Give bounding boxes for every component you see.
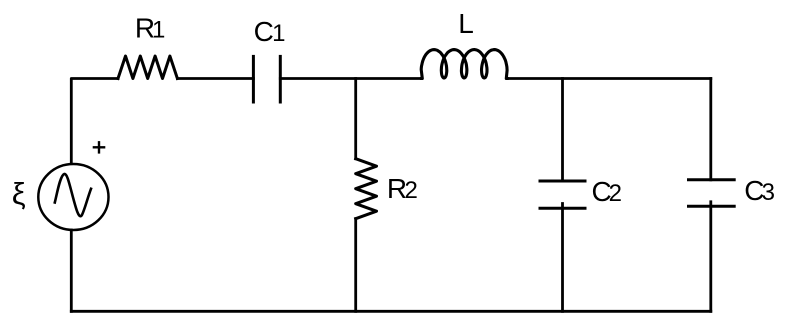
- svg-text:ξ: ξ: [12, 176, 26, 211]
- capacitor C3: [689, 180, 735, 207]
- wire: right vertical from top-right corner to C3: [709, 79, 712, 180]
- wire: C1 to inductor L through R2 junction node: [280, 77, 421, 80]
- resistor R2: [356, 159, 377, 219]
- wire: R2 branch upper lead: [354, 79, 357, 159]
- wire: bottom rail: [71, 310, 711, 313]
- wire: C2 lower lead to bottom rail: [561, 204, 564, 312]
- svg-text:L: L: [458, 8, 474, 39]
- ac source sine wave: [55, 174, 91, 216]
- wire: L to top-right corner through C2 junction node: [507, 77, 711, 80]
- wire: C2 branch upper lead: [561, 79, 564, 182]
- resistor R1: [118, 56, 177, 79]
- wire: source lower lead: [70, 230, 73, 311]
- svg-text:2: 2: [405, 177, 418, 204]
- wire: source top lead and top-left corner to R1: [71, 79, 118, 164]
- plus sign (source polarity): [93, 141, 106, 154]
- svg-text:2: 2: [609, 180, 622, 207]
- capacitor C1: [253, 56, 280, 102]
- ac source circle: [38, 164, 108, 230]
- wire: R1 to C1 left plate: [177, 77, 253, 80]
- wire: R2 lower lead to bottom rail: [354, 219, 357, 312]
- svg-text:1: 1: [272, 20, 285, 47]
- wire: C3 lower lead to bottom-right corner: [709, 202, 712, 311]
- svg-text:1: 1: [152, 16, 165, 43]
- inductor L: [421, 50, 507, 79]
- svg-text:C: C: [254, 16, 274, 47]
- capacitor C2: [540, 181, 585, 208]
- svg-text:3: 3: [762, 179, 775, 206]
